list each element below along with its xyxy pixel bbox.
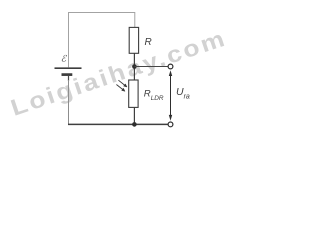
- wire left upper: [68, 12, 70, 67]
- label U_ra: [176, 86, 190, 100]
- LDR R_LDR: [129, 80, 138, 107]
- svg-text:ℰ: ℰ: [61, 53, 68, 63]
- wire to output top: [134, 66, 168, 68]
- battery stub: [68, 76, 70, 82]
- terminal bottom (open circle): [168, 122, 173, 127]
- svg-text:Loigiaihay.com: Loigiaihay.com: [8, 26, 230, 121]
- wire right upper: [134, 12, 136, 27]
- light arrow 2: [116, 85, 125, 92]
- terminal top (open circle): [168, 64, 173, 69]
- node junction top: [132, 64, 137, 69]
- wire middle vertical: [133, 53, 135, 80]
- wire lower vertical: [133, 107, 135, 124]
- wire left lower: [68, 80, 70, 124]
- node junction bottom: [132, 122, 137, 127]
- battery E: [55, 68, 82, 74]
- wire top: [69, 12, 135, 14]
- svg-text:Ura: Ura: [176, 86, 190, 100]
- label E (emf): [61, 53, 68, 63]
- light arrow 1: [118, 80, 127, 87]
- resistor R: [129, 27, 138, 53]
- label R: [145, 37, 152, 48]
- svg-text:R: R: [145, 37, 152, 48]
- watermark Loigiaihay.com: [8, 26, 230, 121]
- U_ra dimension arrow: [169, 70, 172, 121]
- wire bottom: [68, 123, 168, 125]
- label R_LDR: [144, 89, 164, 103]
- svg-text:RLDR: RLDR: [144, 89, 164, 103]
